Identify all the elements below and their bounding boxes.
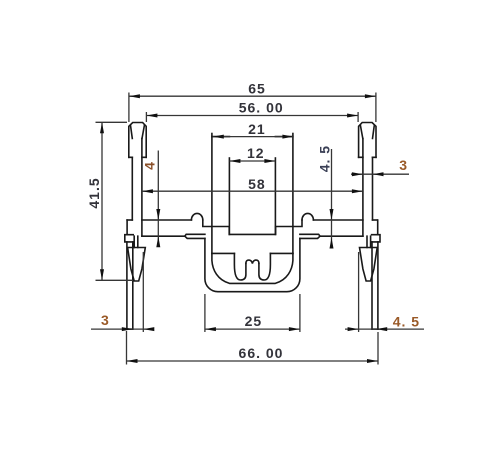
dim 4 arrows [156, 209, 160, 220]
right hook [372, 220, 380, 242]
dim 41.5 ext lines [96, 122, 134, 280]
left leg tip [127, 328, 133, 330]
right wedge stem [367, 236, 371, 247]
left neck [132, 139, 142, 237]
dim 4.5 br line [345, 328, 424, 330]
dim 41.5 line [101, 122, 103, 280]
svg-text:3: 3 [101, 312, 110, 328]
svg-text:4. 5: 4. 5 [393, 313, 420, 329]
right bump [302, 213, 313, 220]
dim 4.5 line [331, 149, 333, 246]
dim 3 right line [351, 173, 409, 175]
left leg outer [126, 242, 128, 329]
left glazing tab outer [129, 123, 146, 158]
left tab step [129, 156, 146, 158]
dim 66.00 arrows [127, 359, 138, 363]
dim 56.00 line [146, 115, 358, 117]
svg-text:4: 4 [141, 161, 157, 170]
right lip tongue [300, 234, 320, 238]
dim 21 line [213, 136, 294, 138]
svg-text:12: 12 [247, 145, 265, 161]
dim 4 line [157, 151, 159, 244]
right wedge [360, 248, 378, 282]
channel inner wall right [274, 158, 276, 234]
dim 65 ext lines [129, 93, 376, 123]
dim 25 ext [205, 294, 300, 332]
web top left of neck [127, 219, 132, 221]
dim 4.5 br arrows [348, 327, 359, 331]
right leg inner [371, 242, 373, 329]
channel cap right [275, 136, 293, 138]
left hook [125, 220, 133, 242]
left lip tongue [185, 234, 205, 238]
web top right span [313, 219, 363, 221]
left wedge stem [134, 236, 138, 247]
left wedge [128, 248, 146, 282]
dim 65 arrows [129, 94, 140, 98]
dim 3 bl arrows [122, 327, 133, 331]
dim 4.5 arrows [330, 209, 334, 220]
channel outer wall left [211, 134, 213, 254]
dim 66.00 ext [127, 331, 379, 365]
dim 56.00 ext lines [146, 112, 358, 122]
svg-text:25: 25 [245, 313, 263, 329]
right glazing tab outer [359, 123, 376, 158]
dim 3 bl line [91, 328, 154, 330]
channel outer wall right [292, 134, 294, 254]
channel inner wall left [228, 158, 230, 234]
left slot mouth top [142, 235, 185, 237]
right tab inner taper [360, 125, 374, 138]
screw prong right [259, 253, 271, 280]
dim 58 arrows [142, 189, 153, 193]
screw notch M [246, 260, 259, 263]
left leg inner [132, 242, 134, 329]
dim 3 right arrows [352, 172, 363, 176]
svg-text:41.5: 41.5 [86, 177, 102, 208]
housing cavity ceiling right [270, 252, 293, 254]
channel cap left [212, 136, 230, 138]
left bump [191, 213, 202, 220]
dim 25 line [205, 328, 300, 330]
svg-text:65: 65 [248, 81, 266, 97]
dim 21 arrows [213, 135, 224, 139]
left inner shelf [203, 220, 302, 234]
dim 25 arrows [205, 327, 216, 331]
left tab inner taper [131, 125, 145, 138]
dim 66.00 line [127, 360, 379, 362]
right neck [363, 139, 373, 237]
dim 56.00 arrows [146, 114, 157, 118]
right leg outer [377, 242, 379, 329]
dim 4.5 br ext [358, 252, 360, 332]
svg-text:3: 3 [399, 157, 408, 173]
svg-text:66. 00: 66. 00 [239, 345, 284, 361]
cavity smile [212, 253, 293, 283]
right tab step [359, 156, 376, 158]
dim 3 bl ext [142, 252, 144, 332]
dim 41.5 arrows [100, 122, 104, 133]
web top right of neck [373, 219, 378, 221]
svg-text:4. 5: 4. 5 [317, 145, 333, 172]
right slot mouth top [320, 235, 363, 237]
housing cavity ceiling left [212, 252, 235, 254]
dim 12 line [229, 160, 275, 162]
dim 65 line [129, 95, 376, 97]
dim 12 arrows [229, 159, 240, 163]
housing outer [205, 238, 300, 291]
dim 58 line [142, 190, 363, 192]
svg-text:56. 00: 56. 00 [239, 100, 284, 116]
svg-text:21: 21 [248, 121, 266, 137]
screw prong left [234, 253, 246, 280]
right leg tip [372, 328, 378, 330]
web top left span [142, 219, 192, 221]
svg-text:58: 58 [248, 176, 266, 192]
